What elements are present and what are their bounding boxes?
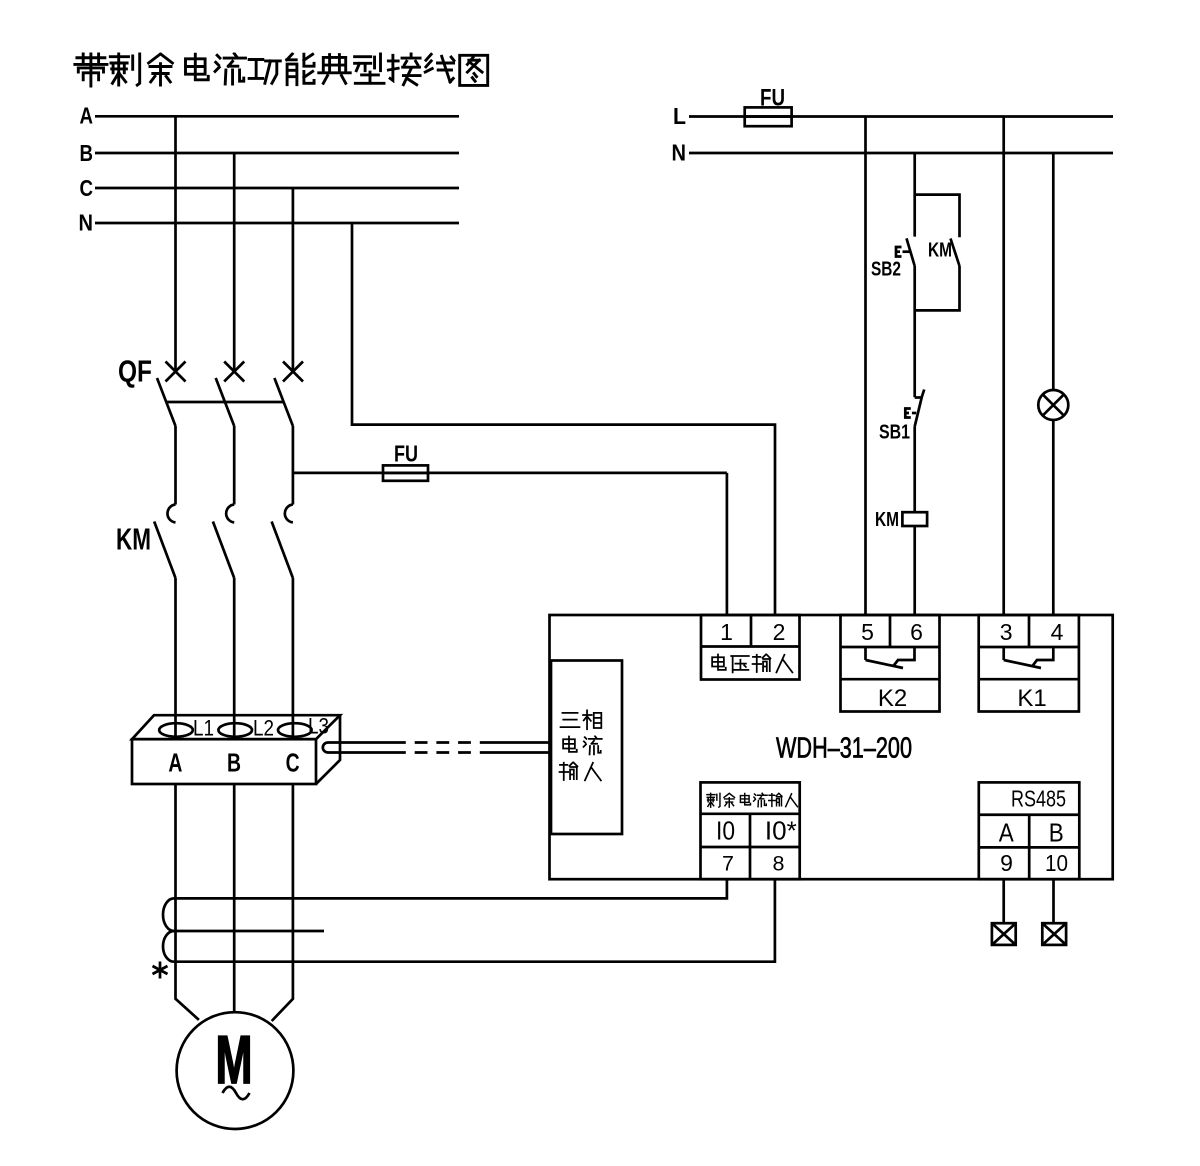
three-phase current input box bbox=[551, 661, 622, 835]
residual current input block bbox=[701, 782, 800, 879]
svg-text:I0: I0 bbox=[716, 816, 735, 846]
terminal block 5/6 relay K2 bbox=[841, 615, 940, 712]
RS485 block bbox=[979, 782, 1080, 879]
wire terminal 8 to coil bbox=[174, 879, 775, 962]
breaker QF pole 2 blade bbox=[216, 378, 235, 426]
wire phase C rail bbox=[95, 187, 459, 190]
wire KM pole 3 to CT bbox=[292, 578, 295, 739]
residual CT coil arc 1 bbox=[163, 898, 174, 931]
label voltage input (dian ya shu ru) bbox=[712, 654, 792, 672]
svg-text:L3: L3 bbox=[308, 714, 329, 739]
wire phase B drop bbox=[233, 153, 236, 371]
wire neutral rail N bbox=[689, 152, 1113, 155]
terminator box 10 bbox=[1042, 923, 1066, 945]
svg-text:SB1: SB1 bbox=[879, 422, 910, 444]
svg-text:A: A bbox=[999, 818, 1015, 848]
svg-text:K2: K2 bbox=[878, 685, 907, 712]
motor M circle bbox=[177, 1012, 294, 1129]
contactor KM aux contact blade bbox=[951, 239, 960, 267]
wire neutral rail bbox=[95, 222, 459, 225]
polarity mark asterisk bbox=[153, 962, 168, 979]
wire KM holding branch bbox=[915, 195, 960, 238]
svg-text:6: 6 bbox=[910, 619, 923, 645]
wire CT to motor lead 1 bbox=[176, 784, 199, 1020]
wire line rail L bbox=[689, 115, 1113, 118]
svg-text:B: B bbox=[1049, 818, 1064, 848]
wire neutral drop to device terminal 2 bbox=[352, 223, 775, 615]
svg-text:N: N bbox=[79, 210, 94, 236]
device outline bbox=[550, 615, 1113, 879]
svg-text:3: 3 bbox=[1000, 619, 1013, 645]
wire QF pole 1 to KM bbox=[174, 426, 177, 505]
svg-text:KM: KM bbox=[928, 240, 952, 262]
contactor KM pole 3 bbox=[285, 505, 293, 523]
wire coil to terminal 6 bbox=[913, 526, 916, 615]
svg-text:1: 1 bbox=[720, 619, 733, 645]
title: dai sheng yu dian liu gong neng dian2 xing jie xian tu bbox=[74, 54, 487, 87]
CT hole L3 bbox=[278, 723, 312, 737]
svg-text:RS485: RS485 bbox=[1011, 786, 1066, 812]
svg-text:9: 9 bbox=[1000, 850, 1013, 876]
fuse FU (left) body bbox=[383, 472, 727, 475]
fuse FU (right) body bbox=[745, 107, 792, 126]
wire terminal 7 to coil bbox=[174, 879, 727, 898]
contactor KM pole 1 bbox=[167, 505, 175, 523]
pushbutton SB1 actuator bbox=[905, 409, 911, 418]
current transformer CT 3D box bbox=[132, 715, 340, 739]
relay K1 contact bbox=[1004, 647, 1054, 668]
motor AC tilde bbox=[223, 1087, 250, 1100]
wire fuse to device terminal 1 bbox=[726, 473, 729, 615]
wire L to terminal 5 bbox=[864, 117, 867, 616]
breaker QF pole 1 contact cross bbox=[166, 362, 186, 382]
label three-phase (san xiang) bbox=[560, 710, 602, 780]
svg-text:I0*: I0* bbox=[765, 816, 797, 846]
wire QF pole 3 to KM bbox=[292, 426, 295, 505]
svg-text:N: N bbox=[672, 140, 687, 166]
terminal block 1/2 voltage input bbox=[701, 615, 800, 680]
wire phase A rail bbox=[95, 115, 459, 118]
svg-text:7: 7 bbox=[722, 852, 734, 876]
wire phase C tap to fuse bbox=[293, 472, 383, 475]
terminator box 9 bbox=[992, 923, 1016, 945]
wire lamp to terminal 4 bbox=[1052, 420, 1055, 615]
svg-text:C: C bbox=[286, 748, 300, 778]
wire phase C drop bbox=[292, 188, 295, 371]
relay K2 contact bbox=[866, 647, 915, 668]
svg-text:5: 5 bbox=[861, 619, 874, 645]
svg-text:A: A bbox=[80, 103, 94, 129]
svg-text:4: 4 bbox=[1051, 619, 1064, 645]
breaker QF linkage bar bbox=[166, 401, 284, 404]
contactor coil KM bbox=[902, 512, 927, 526]
svg-text:KM: KM bbox=[875, 509, 899, 531]
terminal block 3/4 relay K1 bbox=[979, 615, 1079, 712]
svg-text:L2: L2 bbox=[253, 716, 274, 741]
wire N to SB2 bbox=[913, 153, 916, 237]
wire L to terminal 3 bbox=[1002, 117, 1005, 616]
lamp HL bbox=[1038, 390, 1068, 420]
wire KM pole 2 to CT bbox=[233, 578, 236, 739]
wire terminal 9 to terminator bbox=[1002, 879, 1005, 923]
breaker QF pole 3 blade bbox=[274, 378, 293, 426]
wire phase A drop bbox=[174, 116, 177, 371]
svg-text:KM: KM bbox=[116, 522, 151, 557]
svg-text:B: B bbox=[227, 748, 241, 778]
svg-text:C: C bbox=[80, 175, 94, 201]
CT secondary cable bbox=[323, 743, 328, 753]
CT hole L2 bbox=[218, 723, 252, 737]
svg-text:A: A bbox=[168, 748, 182, 778]
CT hole L1 bbox=[159, 723, 193, 737]
svg-text:10: 10 bbox=[1045, 850, 1068, 876]
svg-text:K1: K1 bbox=[1017, 685, 1046, 712]
svg-text:L: L bbox=[673, 103, 686, 129]
breaker QF pole 3 contact cross bbox=[283, 362, 303, 382]
svg-text:M: M bbox=[216, 1022, 253, 1098]
pushbutton SB2 blade bbox=[907, 238, 915, 266]
wire CT to motor lead 3 bbox=[272, 784, 293, 1021]
wire terminal 10 to terminator bbox=[1052, 879, 1055, 923]
svg-text:WDH–31–200: WDH–31–200 bbox=[776, 733, 912, 765]
wire KM holding branch bottom bbox=[915, 266, 960, 397]
pushbutton SB2 actuator bbox=[896, 247, 902, 257]
svg-text:QF: QF bbox=[118, 354, 152, 389]
svg-text:8: 8 bbox=[773, 852, 785, 876]
svg-text:FU: FU bbox=[394, 441, 418, 467]
wire QF pole 2 to KM bbox=[233, 426, 236, 505]
residual CT middle turn bbox=[174, 930, 324, 933]
wire phase B rail bbox=[95, 152, 459, 155]
breaker QF pole 1 blade bbox=[157, 378, 176, 426]
label residual current input (sheng yu dian liu shu ru) bbox=[707, 793, 798, 807]
wire KM pole 1 to CT bbox=[174, 578, 177, 739]
svg-text:SB2: SB2 bbox=[871, 259, 901, 281]
residual CT coil arc 2 bbox=[163, 931, 174, 962]
wire N to lamp bbox=[1052, 153, 1055, 390]
svg-text:2: 2 bbox=[773, 619, 786, 645]
svg-text:L1: L1 bbox=[193, 716, 214, 741]
pushbutton SB1 blade bbox=[915, 390, 925, 427]
wire SB1 to coil bbox=[913, 427, 916, 513]
pushbutton SB1 fixed tick bbox=[915, 396, 921, 399]
svg-text:B: B bbox=[80, 140, 94, 166]
contactor KM pole 2 bbox=[226, 505, 234, 523]
breaker QF pole 2 contact cross bbox=[224, 362, 244, 382]
wire CT to motor lead 2 bbox=[233, 784, 236, 1012]
